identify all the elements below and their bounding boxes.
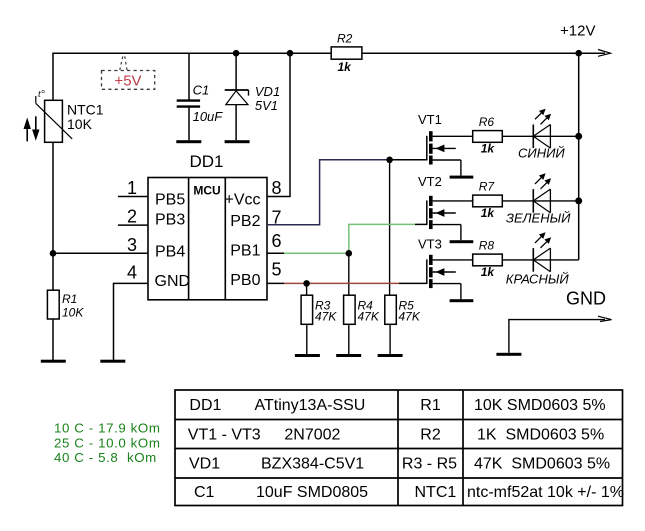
svg-text:47K: 47K [315,310,337,324]
svg-text:1: 1 [127,178,137,198]
wire pin6 PB1 green [284,224,415,253]
svg-text:47K SMD0603 5%: 47K SMD0603 5% [474,456,610,473]
svg-text:BZX384-C5V1: BZX384-C5V1 [261,456,364,473]
ground R1 [41,360,66,363]
svg-text:1K SMD0603 5%: 1K SMD0603 5% [477,427,604,444]
svg-text:R8: R8 [479,238,495,252]
LED green [533,173,551,212]
svg-text:5: 5 [272,260,282,280]
svg-text:10K: 10K [67,116,93,132]
svg-text:25 C - 10.0 kOm: 25 C - 10.0 kOm [54,435,161,450]
wire green to VT2 gate black [415,223,427,225]
svg-text:5V1: 5V1 [255,98,278,113]
svg-text:VD1: VD1 [255,84,280,99]
wire pin1 stub [118,196,148,198]
svg-text:ATtiny13A-SSU: ATtiny13A-SSU [255,397,366,414]
ground R5 [378,354,403,357]
capacitor C1 [177,53,200,140]
ground pin4 [100,360,125,363]
svg-text:R2: R2 [337,32,353,46]
wire pin2 stub [118,224,148,226]
svg-text:ЗЕЛЕНЫЙ: ЗЕЛЕНЫЙ [506,210,571,226]
resistor R6 [473,131,503,143]
transistor VT1 [427,131,474,178]
node divider tap [50,250,57,257]
svg-text:t°: t° [38,89,45,100]
svg-text:1k: 1k [481,142,496,156]
svg-text:2: 2 [127,207,137,227]
wire pin7 PB2 blue [267,160,390,225]
svg-text:1k: 1k [338,60,353,74]
wire pin5 stub [267,282,284,284]
table row3 [189,456,610,473]
wire R4 gnd [348,324,350,354]
svg-text:R7: R7 [479,179,496,193]
resistor R4 [344,295,356,324]
svg-text:47K: 47K [358,310,380,324]
node green R4 tap [346,250,353,257]
ground GND net [496,353,521,356]
resistor R3 [301,295,313,324]
svg-text:PB4: PB4 [155,244,185,261]
ground R4 [336,354,361,357]
svg-text:8: 8 [272,178,282,198]
LED red [533,232,551,271]
node rail LED2 [575,197,582,204]
svg-text:1k: 1k [481,265,496,279]
green thermistor data text [54,421,161,466]
svg-text:10uF SMD0805: 10uF SMD0805 [256,484,368,501]
+5V callout [102,55,155,90]
IC DD1 body [148,178,267,300]
LED blue [533,109,551,148]
svg-text:1k: 1k [481,206,496,220]
node rail LED1 [575,133,582,140]
svg-text:PB2: PB2 [230,213,260,230]
svg-text:СИНИЙ: СИНИЙ [518,145,565,161]
resistor R8 [473,254,503,266]
wire R8 to LED3 [502,259,578,261]
wire R6 to LED1 [502,135,578,137]
+12V arrowhead [598,50,611,57]
transistor VT3 [427,255,474,302]
svg-text:10K SMD0603 5%: 10K SMD0603 5% [474,397,606,414]
zener VD1 [225,53,249,140]
svg-text:10 C - 17.9 kOm: 10 C - 17.9 kOm [54,421,161,436]
svg-text:R1: R1 [62,292,77,306]
wire R7 to LED2 [502,200,578,202]
wire +12V vertical rail [578,53,580,260]
svg-text:ntc-mf52at 10k +/- 1%: ntc-mf52at 10k +/- 1% [467,484,624,501]
svg-text:GND: GND [566,289,606,309]
node on +5V rail at VD1 [233,50,240,57]
svg-text:КРАСНЫЙ: КРАСНЫЙ [506,271,570,287]
NTC1 up arrow [24,118,31,142]
svg-text:R2: R2 [420,427,441,444]
GND net wire with arrow [509,316,612,353]
resistor R5 [385,295,397,324]
table row2 [188,427,604,444]
resistor R1 [47,290,59,319]
svg-text:+Vcc: +Vcc [224,192,260,209]
svg-text:VD1: VD1 [189,456,220,473]
svg-text:10K: 10K [62,306,84,320]
svg-text:NTC1: NTC1 [415,484,457,501]
svg-text:VT1: VT1 [418,112,442,127]
svg-text:PB0: PB0 [230,272,260,289]
wire +5V top rail right segment to +12V arrow [362,52,605,54]
wire R3 drop [306,283,308,295]
parts table grid [175,390,623,506]
wire pin4 to ground [114,283,149,360]
svg-text:GND: GND [155,273,191,290]
svg-text:R3 - R5: R3 - R5 [402,456,457,473]
wire pin3 to divider [53,252,148,254]
svg-text:40 C - 5.8 kOm: 40 C - 5.8 kOm [54,450,157,465]
svg-text:C1: C1 [193,83,210,98]
wire red to VT3 gate black [399,282,427,284]
wire blue to VT1 gate black [390,159,427,161]
wire pin6 stub [267,252,284,254]
wire R5 gnd [389,324,391,354]
ground under VD1 [225,140,250,143]
wire R1 to ground [52,319,54,360]
svg-text:DD1: DD1 [190,152,224,171]
svg-text:6: 6 [272,231,282,251]
svg-text:VT1 - VT3: VT1 - VT3 [188,427,261,444]
wire left divider vertical [52,253,54,290]
svg-text:3: 3 [127,235,137,255]
svg-text:VT2: VT2 [418,174,442,189]
resistor R2 [331,47,362,59]
svg-text:MCU: MCU [193,183,220,197]
svg-text:PB5: PB5 [155,192,185,209]
table row1 [189,397,605,414]
transistor VT2 [427,196,474,243]
wire pin8 Vcc drop [267,53,290,196]
svg-text:PB1: PB1 [230,242,260,259]
wire R3 gnd [306,324,308,354]
svg-text:C1: C1 [194,484,215,501]
table row4 [194,484,624,501]
ground under C1 [176,140,201,143]
svg-text:10uF: 10uF [193,109,224,124]
wire pin5 PB0 red [284,282,399,284]
resistor R7 [473,195,503,207]
svg-text:R1: R1 [420,397,441,414]
wire R5 drop [389,160,391,295]
svg-text:47K: 47K [399,310,421,324]
svg-text:+12V: +12V [560,23,595,40]
svg-text:4: 4 [127,263,137,283]
svg-text:2N7002: 2N7002 [284,427,340,444]
thermistor NTC1 [36,96,72,253]
svg-text:DD1: DD1 [189,397,221,414]
svg-text:+5V: +5V [114,73,141,90]
node on +5V rail at pin8 drop [287,50,294,57]
ground R3 [295,354,320,357]
wire R4 drop [348,253,350,295]
node rail top [575,50,582,57]
wire +5V top rail left segment [53,53,331,100]
node red R3 tap [303,280,310,287]
NTC1 down arrow [32,116,39,141]
svg-text:R6: R6 [479,115,495,129]
svg-text:PB3: PB3 [155,212,185,229]
node blue R5 tap [386,157,393,164]
svg-text:VT3: VT3 [418,237,442,252]
